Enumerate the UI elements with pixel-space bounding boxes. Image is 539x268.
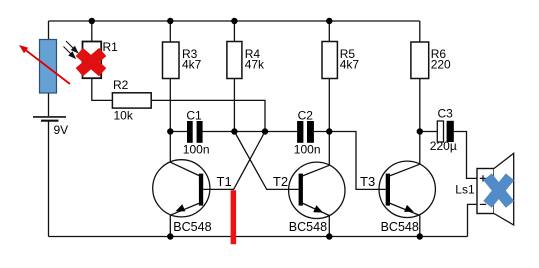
node: top rail / R5 [326, 18, 332, 24]
svg-text:220: 220 [431, 58, 451, 72]
capacitor C3 (electrolytic) [430, 107, 457, 154]
node: top rail / R3 [167, 18, 173, 24]
wire: +V top rail [49, 20, 420, 22]
node: top rail / R4 [231, 18, 237, 24]
red X annotation over R1 [79, 52, 102, 72]
svg-text:10k: 10k [114, 109, 134, 123]
node: T2 emitter / rail [326, 233, 332, 239]
resistor R6 [411, 42, 451, 79]
wire: R3 top lead [169, 21, 171, 42]
wire: T3 emitter to rail [419, 215, 421, 236]
red arrow annotation (wiper) [19, 45, 70, 84]
svg-text:C2: C2 [298, 108, 314, 122]
resistor R4 [227, 42, 265, 79]
wire: battery branch bottom [48, 121, 50, 237]
potentiometer (blue annotation rectangle) [40, 40, 57, 94]
wire: R6 top lead [419, 21, 421, 42]
svg-text:T3: T3 [360, 174, 375, 189]
loudspeaker Ls1 [455, 153, 513, 225]
node: T2 collector / R5 [326, 128, 332, 134]
svg-text:100n: 100n [294, 143, 321, 157]
resistor R5 [322, 42, 359, 79]
wire: battery branch top [48, 21, 50, 40]
svg-text:BC548: BC548 [173, 220, 211, 234]
wire: R4 top lead [233, 21, 235, 42]
wire: C2 right to T3 base drop [314, 132, 386, 190]
node: T1 collector / C1 [167, 128, 173, 134]
resistor R3 [163, 42, 202, 79]
transistor T3 [360, 161, 435, 234]
wire: ground bottom rail [49, 236, 468, 238]
wire: cross link D2 to T1 base [233, 132, 265, 191]
wire: C1 to C2 segment [203, 131, 298, 133]
node: T1 emitter / rail [167, 233, 173, 239]
wire: C3 right to speaker plus [454, 132, 477, 179]
wire: R1 bottom to R2 [92, 78, 113, 100]
wire: R2 to T-base column [151, 100, 265, 131]
svg-text:4k7: 4k7 [182, 58, 202, 72]
svg-text:Ls1: Ls1 [455, 183, 475, 197]
capacitor C1 [183, 108, 210, 156]
svg-text:T2: T2 [273, 174, 288, 189]
node: R4 / C1 right [231, 128, 237, 134]
svg-text:T1: T1 [217, 174, 232, 189]
LDR light arrow 1 [66, 41, 78, 53]
wire: T1 base lead [203, 188, 233, 190]
capacitor C2 [294, 108, 321, 156]
svg-text:220µ: 220µ [430, 139, 457, 153]
LDR light arrow 2 [64, 47, 76, 59]
transistor T1 [153, 160, 232, 234]
resistor R2 [112, 78, 151, 123]
wire: T2 emitter to rail [328, 216, 330, 237]
svg-text:BC548: BC548 [289, 220, 327, 234]
svg-text:4k7: 4k7 [340, 58, 360, 72]
wire: R5 top lead [328, 21, 330, 42]
wire: T1 emitter to rail [169, 215, 171, 236]
wire: R5 bottom / T2 collector [328, 79, 330, 166]
svg-text:C3: C3 [438, 107, 454, 121]
resistor R1 (LDR) [83, 40, 119, 78]
svg-text:R1: R1 [103, 40, 119, 54]
wire: battery branch mid [48, 93, 50, 116]
battery 9V [33, 117, 68, 137]
svg-text:47k: 47k [245, 58, 265, 72]
node: T3 collector / R6 / C3 [417, 128, 423, 134]
transistor T2 [273, 162, 345, 234]
red wire annotation (T1 base to ground) [231, 190, 237, 244]
wire: R4 bottom lead [233, 79, 235, 132]
blue X annotation over speaker [488, 177, 511, 205]
svg-text:C1: C1 [186, 108, 202, 122]
svg-text:BC548: BC548 [381, 220, 419, 234]
wire: cross link D1 to T2 base [234, 132, 298, 190]
svg-text:R2: R2 [113, 78, 129, 92]
svg-text:100n: 100n [183, 143, 210, 157]
wire: speaker minus to rail [468, 204, 478, 236]
wire: C1-C2 horizontal left [170, 131, 187, 133]
node: R2 / C2 left [262, 128, 268, 134]
svg-text:9V: 9V [54, 123, 69, 137]
wire: R3 bottom / T1 collector [169, 79, 171, 163]
wire: R1 top lead [91, 21, 93, 42]
node: top rail / R1 [89, 18, 95, 24]
wire: C3 left lead [420, 131, 438, 133]
wire: R6 bottom / T3 collector [419, 79, 421, 165]
node: T3 emitter / rail [417, 233, 423, 239]
